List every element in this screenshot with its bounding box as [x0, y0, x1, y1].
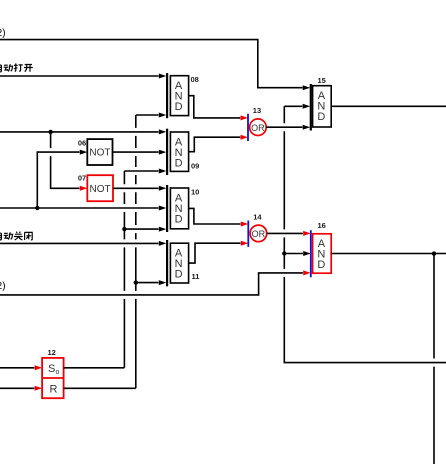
- wire VS vertical from AND09 in3 corner down to S output (gaps at crossings): [123, 171, 125, 368]
- node junction dot on line B: [35, 206, 39, 210]
- wire R input line: [0, 386, 42, 391]
- svg-text:12: 12: [48, 348, 56, 357]
- wire (2) bottom line to AND16 input 3: [0, 270, 311, 295]
- OR gate 13: [248, 106, 266, 141]
- svg-text:15: 15: [318, 76, 326, 85]
- wire OR14 output to AND16 input 1: [267, 231, 311, 236]
- wire branch from line B up to NOT06 input: [37, 150, 87, 208]
- node junction dot on AND16 output: [432, 251, 436, 255]
- svg-text:D: D: [175, 269, 183, 281]
- wire AND15 input 2 from vertical corner: [284, 104, 310, 109]
- svg-text:R: R: [50, 383, 58, 395]
- node 自动关闭 label: [0, 232, 32, 240]
- wire VS branch to AND10 input 3: [124, 227, 166, 232]
- AND gate 16 (red with blue bar): [311, 221, 331, 277]
- svg-text:D: D: [317, 111, 325, 123]
- SR latch 12 (red): [42, 348, 64, 398]
- svg-text:o: o: [56, 369, 60, 376]
- node junction dot on VR for AND11 input 2: [134, 280, 138, 284]
- wire vertical from AND15 in2 down to bottom-right line (gaps at crossings, dot at AND16 in2): [284, 106, 446, 362]
- svg-text:S: S: [48, 363, 55, 375]
- wire AND09 output to OR13 input 2: [189, 135, 248, 152]
- svg-text:(2): (2): [0, 281, 6, 292]
- wire AND10 output to OR14 input 1: [189, 208, 249, 226]
- node junction dot for AND16 input 2: [282, 251, 286, 255]
- svg-text:(2): (2): [0, 28, 6, 39]
- wire S input line: [0, 365, 42, 370]
- wire NOT07 output to AND10 input 1: [113, 186, 166, 191]
- wire line A to AND09 input 1: [0, 129, 166, 134]
- wire VR branch to AND11 input 2: [136, 280, 167, 285]
- wire vertical from AND16 output junction down to bottom edge (gap at crossing): [433, 254, 435, 464]
- svg-text:NOT: NOT: [90, 184, 111, 195]
- AND gate 08: [167, 73, 199, 118]
- wire (2) top line to AND15 input 1: [0, 40, 310, 91]
- svg-text:D: D: [175, 157, 183, 169]
- node junction dot on VS for AND10 input 3: [122, 227, 126, 231]
- AND gate 09: [167, 129, 199, 175]
- wire line B to AND10 input 2: [0, 206, 166, 211]
- svg-text:14: 14: [253, 213, 262, 222]
- svg-text:OR: OR: [252, 229, 266, 239]
- AND gate 11: [167, 240, 199, 286]
- wire vertical VR from AND08 in2 down to R output (gaps at crossings): [135, 115, 137, 388]
- svg-text:NOT: NOT: [89, 148, 110, 159]
- wire AND16 output to right edge with junction: [331, 253, 446, 255]
- wire AND11 output to OR14 input 2: [189, 241, 249, 263]
- svg-text:09: 09: [191, 162, 199, 171]
- svg-text:08: 08: [191, 75, 199, 84]
- NOT gate 06: [78, 138, 113, 165]
- wire 自动打开 line to AND08 input 1: [0, 74, 166, 79]
- wire 自动关闭 line to AND11 input 1: [0, 241, 166, 246]
- wire S output to VS vertical: [64, 367, 125, 369]
- wire NOT06 output to AND09 input 2: [113, 150, 167, 155]
- svg-text:16: 16: [318, 221, 326, 230]
- node 自动打开 label: [0, 63, 33, 71]
- wire OR13 output to AND15 input 3: [266, 125, 310, 130]
- svg-text:11: 11: [192, 272, 200, 281]
- node junction dot on line A: [48, 130, 52, 134]
- svg-text:OR: OR: [251, 123, 265, 133]
- wire R output to VR vertical: [64, 387, 136, 389]
- AND gate 10: [167, 185, 199, 232]
- node (2) top label: [0, 28, 6, 39]
- svg-text:13: 13: [253, 106, 261, 115]
- wire AND08 output to OR13 input 1: [189, 96, 248, 121]
- wire AND15 output to right edge: [331, 105, 446, 107]
- svg-text:10: 10: [191, 187, 199, 196]
- svg-text:07: 07: [78, 174, 86, 183]
- wire branch from line A down to NOT07 input (gap at NOT06 line): [51, 132, 88, 191]
- wire VS corner to AND09 input 3: [124, 169, 166, 174]
- wire AND08 input 2 from vertical VR: [136, 113, 167, 118]
- wire branch to AND16 input 2: [284, 251, 310, 256]
- node (2) bottom label: [0, 281, 6, 292]
- svg-text:D: D: [317, 259, 325, 271]
- NOT gate 07 (red): [78, 174, 113, 202]
- AND gate 15: [311, 76, 331, 131]
- svg-text:06: 06: [78, 138, 86, 147]
- OR gate 14: [248, 213, 266, 247]
- svg-text:D: D: [175, 101, 183, 113]
- svg-text:D: D: [175, 213, 183, 225]
